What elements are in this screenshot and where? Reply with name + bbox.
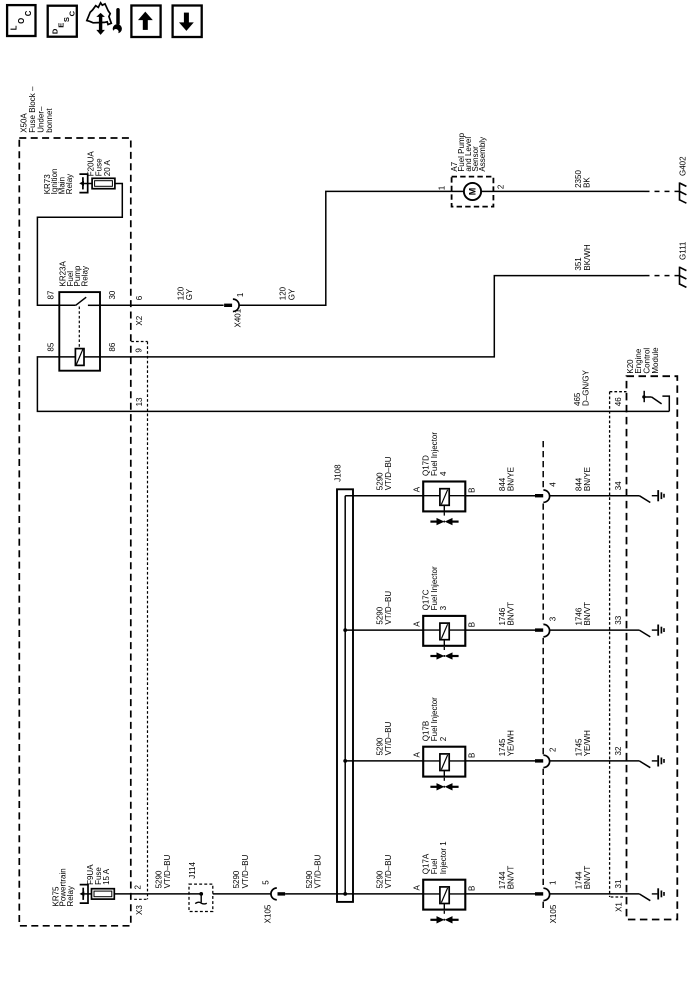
ECM pin 46 top cap [610, 391, 627, 393]
svg-text:YE/WH: YE/WH [507, 730, 516, 756]
icon LOC letters [10, 10, 33, 30]
wire 5290 VT/D-BU J108 tap row 4 [345, 495, 423, 497]
svg-text:Relay: Relay [65, 174, 74, 194]
svg-text:1: 1 [549, 880, 558, 885]
svg-text:34: 34 [614, 481, 623, 490]
svg-text:A: A [412, 752, 421, 758]
label KR75 Powertrain Relay [51, 868, 75, 906]
label Q17C Fuel Injector [422, 566, 448, 610]
wire out of A7 motor right [481, 190, 493, 192]
icon down arrow [179, 13, 194, 31]
relay KR73 blade arrow [79, 181, 84, 186]
svg-text:86: 86 [108, 342, 117, 351]
wire 844 BN/YE segment 2 [549, 495, 639, 497]
label 351 BK/WH [574, 244, 592, 270]
icon DESC letters [50, 10, 76, 34]
svg-text:X105: X105 [264, 904, 273, 923]
svg-text:VT/D–BU: VT/D–BU [384, 854, 393, 888]
svg-text:85: 85 [46, 342, 55, 351]
svg-text:Relay: Relay [66, 886, 75, 906]
wire 5290 VT/D-BU through J108 to injector [285, 893, 423, 895]
label F20UA Fuse 20A [87, 151, 112, 177]
svg-text:D: D [50, 28, 59, 34]
wire relay coil row right [84, 356, 101, 358]
splice J114 dashed box [189, 884, 213, 911]
svg-text:VT/D–BU: VT/D–BU [384, 721, 393, 755]
svg-text:3: 3 [439, 605, 448, 610]
svg-text:O: O [17, 18, 26, 24]
label 120 GY (left) [177, 286, 195, 300]
svg-text:Fuel Injector: Fuel Injector [430, 432, 439, 476]
ECM pin 31 driver blade [639, 894, 650, 901]
label 5290 VT/D-BU row 1 (at injector) [376, 854, 394, 888]
ECM pin 46 driver junction [642, 395, 645, 398]
svg-text:BN/VT: BN/VT [507, 866, 516, 890]
ECM internal ground pin 33 [652, 625, 664, 636]
svg-text:D–GN/GY: D–GN/GY [582, 369, 591, 406]
svg-text:33: 33 [614, 615, 623, 624]
wire 2350 BK dashed end [645, 190, 680, 192]
injector Q17C nozzle symbol [430, 647, 458, 659]
label 844 BN/YE (right) [575, 467, 593, 491]
svg-text:87: 87 [46, 290, 55, 299]
svg-text:X3: X3 [135, 905, 144, 915]
icon up-arrow box [131, 6, 160, 38]
fuel injector Q17D [423, 482, 465, 512]
ECM pin 34 driver blade [639, 496, 650, 503]
svg-text:A: A [412, 621, 421, 627]
wire F20UA to KR23A pin 87 [37, 184, 122, 306]
label 5290 VT/D-BU row 2 [376, 721, 394, 755]
wire 351 BK/WH dashed end [645, 275, 680, 277]
svg-text:BN/VT: BN/VT [507, 602, 516, 626]
svg-text:15 A: 15 A [102, 868, 111, 885]
label 1745 YE/WH (right) [575, 730, 593, 756]
svg-text:Injector 1: Injector 1 [439, 841, 448, 874]
svg-text:G111: G111 [678, 241, 687, 260]
svg-text:6: 6 [135, 295, 144, 300]
connector boundary dotted X2/X3 [147, 342, 149, 900]
injector Q17D nozzle symbol [430, 513, 458, 525]
relay KR23A contact stub left [59, 304, 75, 306]
svg-text:J108: J108 [333, 464, 342, 482]
svg-text:1: 1 [438, 185, 447, 190]
wire 5290 VT/D-BU J108 tap row 3 [345, 629, 423, 631]
relay KR75 blade arrow [80, 891, 85, 896]
svg-text:VT/D–BU: VT/D–BU [163, 854, 172, 888]
svg-text:YE/WH: YE/WH [583, 730, 592, 756]
svg-text:A: A [412, 486, 421, 492]
pin 9 box top cap [131, 341, 147, 343]
relay KR23A coil diagonal [76, 349, 83, 364]
svg-text:32: 32 [614, 746, 623, 755]
svg-text:X105: X105 [549, 904, 558, 923]
svg-text:J114: J114 [188, 861, 197, 878]
ECM pin 32 driver blade [639, 761, 650, 768]
fuel injector Q17C [423, 616, 465, 646]
svg-text:Fuel: Fuel [430, 858, 439, 874]
svg-text:X2: X2 [135, 315, 144, 325]
ground G111 symbol [680, 267, 687, 288]
label K20 Engine Control Module [626, 347, 660, 374]
label 1746 BN/VT (left) [498, 602, 516, 626]
svg-text:BN/YE: BN/YE [507, 467, 516, 491]
label 465 D-GN/GY [573, 369, 591, 406]
label KR23A Fuel Pump Relay [58, 260, 89, 286]
fuse F20UA outer [92, 178, 115, 188]
label 1744 BN/VT (right) [575, 866, 593, 890]
svg-text:E: E [57, 23, 66, 28]
svg-text:9: 9 [135, 348, 144, 353]
wire 1745 YE/WH segment 2 [549, 760, 639, 762]
svg-text:Module: Module [651, 347, 660, 374]
icon DESC box [48, 6, 77, 37]
svg-text:B: B [468, 487, 477, 492]
svg-text:M: M [468, 188, 478, 196]
svg-text:Fuel Injector: Fuel Injector [430, 697, 439, 741]
wire relay coil row left [59, 356, 76, 358]
relay KR23A contact blade [76, 297, 87, 305]
junction dot J108 row4 [343, 892, 347, 896]
svg-text:20 A: 20 A [103, 160, 112, 177]
icon wrench [113, 10, 122, 35]
wire 351 BK/WH [100, 276, 645, 357]
junction dot J108 row3 [343, 759, 347, 763]
label Q17B Fuel Injector [422, 697, 448, 741]
motor M circle [464, 183, 481, 200]
svg-text:BN/YE: BN/YE [583, 467, 592, 491]
icon down-arrow box [173, 6, 202, 38]
label X50A Fuse Block - Underbonnet [19, 86, 54, 133]
svg-text:bonnet: bonnet [45, 108, 54, 133]
svg-text:VT/D–BU: VT/D–BU [384, 456, 393, 490]
svg-text:Relay: Relay [81, 266, 90, 286]
svg-text:3: 3 [549, 616, 558, 621]
svg-text:1: 1 [236, 292, 245, 297]
wire F9UA to J114 [114, 893, 201, 895]
connector X105 pin 5 terminal [271, 888, 285, 900]
svg-text:13: 13 [135, 397, 144, 406]
wire 1746 BN/VT segment 1 [465, 629, 535, 631]
svg-text:X401: X401 [234, 308, 243, 327]
label 2350 BK [574, 170, 592, 188]
icon hotlink double arrow [96, 13, 105, 35]
label 5290 VT/D-BU row 4 [376, 456, 394, 490]
svg-text:4: 4 [549, 482, 558, 487]
label 120 GY (right) [279, 286, 297, 300]
wire into A7 motor left [452, 190, 464, 192]
label 5290 VT/D-BU row 3 [376, 591, 394, 625]
svg-text:Assembly: Assembly [478, 137, 487, 172]
label 5290 VT/D-BU (b) [232, 854, 250, 888]
svg-text:G402: G402 [678, 156, 687, 176]
svg-text:X1: X1 [614, 902, 623, 912]
svg-text:B: B [468, 622, 477, 627]
label F9UA Fuse 15A [86, 864, 111, 885]
wire 844 BN/YE segment 1 [465, 495, 535, 497]
ECM internal ground pin 34 [652, 490, 664, 501]
icon LOC box [7, 5, 35, 36]
svg-text:2: 2 [439, 736, 448, 741]
svg-text:VT/D–BU: VT/D–BU [384, 591, 393, 625]
svg-text:GY: GY [185, 288, 194, 300]
wire 1746 BN/VT segment 2 [549, 629, 639, 631]
svg-text:BK: BK [582, 177, 591, 188]
svg-text:2: 2 [549, 747, 558, 752]
svg-text:VT/D–BU: VT/D–BU [241, 854, 250, 888]
fuel injector Q17A [423, 880, 465, 910]
wire 1744 BN/VT segment 1 [465, 893, 535, 895]
connector X105 pin 1 terminal [535, 888, 550, 900]
wire J114 to X105 pin 5 [213, 893, 271, 895]
svg-text:C: C [24, 10, 33, 16]
connector X105 dashed line [542, 441, 544, 911]
svg-text:A: A [412, 885, 421, 891]
wire KR73 to fuse F20UA [83, 183, 92, 185]
splice J114 junction dot [199, 892, 203, 896]
injector Q17A nozzle symbol [430, 911, 458, 923]
label 1746 BN/VT (right) [575, 602, 593, 626]
ECM pin 33 driver blade [639, 630, 650, 637]
fuse F9UA inner [94, 891, 112, 897]
label 5290 VT/D-BU (a) [154, 854, 172, 888]
icon up arrow [138, 12, 153, 30]
wire KR75 to fuse F9UA [83, 893, 91, 895]
connector X401 [224, 299, 239, 311]
label 1744 BN/VT (left) [498, 866, 516, 890]
svg-text:GY: GY [287, 288, 296, 300]
relay KR23A coil [75, 349, 84, 366]
wire 120 GY segment 1 [100, 304, 224, 306]
wire 465 D-GN/GY [37, 357, 669, 412]
splice J114 symbol [195, 894, 207, 904]
ECM pin 46 driver symbol [644, 391, 669, 412]
fuse block X50A dashed box [19, 138, 131, 926]
svg-text:VT/D–BU: VT/D–BU [314, 854, 323, 888]
ECM internal ground pin 32 [652, 755, 664, 766]
fuel injector Q17B [423, 747, 465, 777]
svg-text:B: B [468, 753, 477, 758]
relay KR23A contact stub right [88, 304, 100, 306]
label A7 Fuel Pump and Level Sensor Assembly [450, 132, 487, 171]
ground G402 symbol [680, 182, 687, 203]
pin 2 box bottom cap [134, 898, 147, 900]
fuel pump A7 dashed box [452, 177, 494, 207]
wire 5290 VT/D-BU J108 tap row 2 [345, 760, 423, 762]
svg-text:L: L [10, 25, 19, 30]
svg-text:5: 5 [261, 880, 270, 885]
wire 120 GY segment 2 [238, 191, 451, 305]
junction dot J108 row2 [343, 628, 347, 632]
svg-text:BN/VT: BN/VT [583, 602, 592, 626]
svg-text:46: 46 [614, 397, 623, 406]
label Q17D Fuel Injector [422, 432, 448, 476]
wire 2350 BK solid [493, 190, 644, 192]
label KR73 Ignition Main Relay [43, 169, 74, 195]
label Q17A Fuel Injector [422, 841, 448, 874]
svg-text:Fuel Injector: Fuel Injector [430, 566, 439, 610]
ECM X1 bottom cap [611, 896, 623, 898]
fuse F20UA inner [95, 181, 113, 187]
label 844 BN/YE (left) [498, 467, 516, 491]
ECM K20 dashed box [627, 376, 678, 919]
svg-text:2: 2 [133, 885, 142, 890]
svg-text:2: 2 [497, 184, 506, 189]
icon hotlink outline [87, 3, 112, 25]
svg-text:31: 31 [614, 879, 623, 888]
fuse F9UA outer [92, 889, 115, 899]
svg-text:BK/WH: BK/WH [583, 244, 592, 270]
label 5290 VT/D-BU (c) [305, 854, 323, 888]
svg-text:BN/VT: BN/VT [583, 866, 592, 890]
label 1745 YE/WH (left) [498, 730, 516, 756]
relay KR73 contact [79, 174, 87, 193]
ECM X1 connector dotted line [609, 392, 611, 897]
svg-text:S: S [62, 17, 71, 22]
ECM internal ground pin 31 [652, 888, 664, 899]
svg-text:C: C [68, 10, 77, 16]
injector Q17B nozzle symbol [430, 778, 458, 790]
relay KR75 contact [80, 885, 88, 904]
svg-text:4: 4 [439, 471, 448, 476]
wire 1745 YE/WH segment 1 [465, 760, 535, 762]
connector X105 pin 2 terminal [535, 755, 550, 767]
wire 1744 BN/VT segment 2 [549, 893, 639, 895]
relay KR23A actuator dashed [78, 307, 80, 348]
svg-text:30: 30 [108, 290, 117, 299]
splice pack J108 rail [337, 489, 353, 902]
connector X105 pin 3 terminal [535, 624, 550, 636]
svg-text:B: B [468, 886, 477, 891]
connector X105 pin 4 terminal [535, 490, 550, 502]
relay KR23A box [59, 292, 100, 371]
